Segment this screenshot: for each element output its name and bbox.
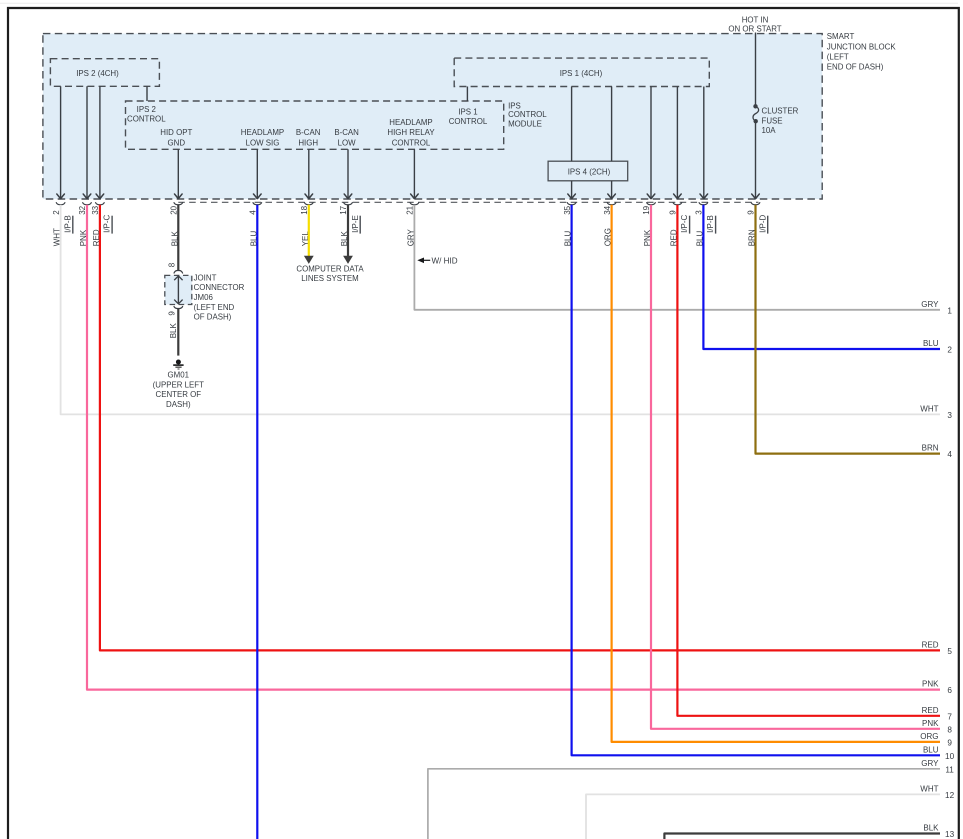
svg-text:HIGH: HIGH bbox=[298, 139, 318, 148]
svg-text:9: 9 bbox=[669, 210, 678, 215]
svg-text:3: 3 bbox=[947, 411, 952, 420]
svg-text:7: 7 bbox=[947, 712, 952, 721]
svg-text:I/P-B: I/P-B bbox=[706, 215, 715, 233]
svg-text:(LEFT: (LEFT bbox=[827, 52, 849, 61]
svg-text:WHT: WHT bbox=[920, 784, 938, 793]
svg-text:WHT: WHT bbox=[920, 404, 938, 413]
svg-text:LINES SYSTEM: LINES SYSTEM bbox=[301, 274, 358, 283]
svg-text:PNK: PNK bbox=[922, 719, 939, 728]
svg-text:9: 9 bbox=[168, 311, 177, 316]
svg-text:OF DASH): OF DASH) bbox=[194, 313, 232, 322]
svg-text:BLK: BLK bbox=[169, 323, 178, 339]
svg-text:BLU: BLU bbox=[923, 339, 939, 348]
svg-text:18: 18 bbox=[300, 205, 309, 214]
svg-text:LOW: LOW bbox=[338, 139, 357, 148]
svg-text:20: 20 bbox=[170, 205, 179, 214]
svg-text:5: 5 bbox=[947, 647, 952, 656]
svg-text:PNK: PNK bbox=[922, 680, 939, 689]
svg-text:(UPPER LEFT: (UPPER LEFT bbox=[153, 380, 204, 389]
svg-text:CLUSTER: CLUSTER bbox=[762, 107, 799, 116]
svg-text:GRY: GRY bbox=[921, 300, 939, 309]
svg-text:10: 10 bbox=[945, 752, 955, 761]
svg-text:RED: RED bbox=[922, 706, 939, 715]
svg-text:(LEFT END: (LEFT END bbox=[194, 303, 235, 312]
svg-text:BLU: BLU bbox=[923, 745, 939, 754]
svg-text:17: 17 bbox=[339, 205, 348, 214]
svg-text:CONTROL: CONTROL bbox=[127, 115, 166, 124]
svg-text:21: 21 bbox=[406, 205, 415, 214]
svg-text:HOT IN: HOT IN bbox=[742, 15, 769, 24]
svg-text:HEADLAMP: HEADLAMP bbox=[389, 118, 432, 127]
svg-text:I/P-B: I/P-B bbox=[63, 215, 72, 233]
svg-text:BRN: BRN bbox=[922, 444, 939, 453]
svg-text:MODULE: MODULE bbox=[508, 119, 542, 128]
svg-text:DASH): DASH) bbox=[166, 400, 191, 409]
svg-text:HID OPT: HID OPT bbox=[160, 128, 192, 137]
svg-text:FUSE: FUSE bbox=[762, 116, 783, 125]
svg-text:32: 32 bbox=[78, 205, 87, 214]
svg-text:10A: 10A bbox=[762, 126, 777, 135]
svg-text:IPS 2 (4CH): IPS 2 (4CH) bbox=[76, 69, 119, 78]
svg-text:4: 4 bbox=[249, 210, 258, 215]
svg-text:35: 35 bbox=[563, 205, 572, 214]
svg-text:I/P-E: I/P-E bbox=[351, 215, 360, 233]
svg-text:ORG: ORG bbox=[920, 732, 938, 741]
svg-text:GM01: GM01 bbox=[168, 371, 190, 380]
svg-text:CONNECTOR: CONNECTOR bbox=[194, 283, 245, 292]
svg-text:3: 3 bbox=[695, 210, 704, 215]
svg-text:GRY: GRY bbox=[921, 759, 939, 768]
svg-text:GND: GND bbox=[168, 139, 186, 148]
svg-text:JM06: JM06 bbox=[194, 293, 214, 302]
svg-text:I/P-C: I/P-C bbox=[680, 214, 689, 232]
svg-text:END OF DASH): END OF DASH) bbox=[827, 63, 884, 72]
svg-text:COMPUTER DATA: COMPUTER DATA bbox=[296, 264, 364, 273]
svg-text:2: 2 bbox=[947, 346, 952, 355]
svg-text:B-CAN: B-CAN bbox=[334, 128, 359, 137]
svg-text:CONTROL: CONTROL bbox=[508, 110, 547, 119]
svg-text:IPS 4 (2CH): IPS 4 (2CH) bbox=[568, 167, 611, 176]
svg-text:IPS 2: IPS 2 bbox=[137, 105, 156, 114]
svg-text:BLK: BLK bbox=[923, 824, 939, 833]
svg-text:11: 11 bbox=[945, 765, 954, 774]
svg-text:ON OR START: ON OR START bbox=[728, 25, 781, 34]
svg-text:33: 33 bbox=[91, 205, 100, 214]
svg-text:IPS 1 (4CH): IPS 1 (4CH) bbox=[560, 69, 603, 78]
svg-text:4: 4 bbox=[947, 450, 952, 459]
svg-text:34: 34 bbox=[603, 205, 612, 214]
svg-text:1: 1 bbox=[947, 306, 952, 315]
svg-text:B-CAN: B-CAN bbox=[296, 128, 321, 137]
svg-text:LOW SIG: LOW SIG bbox=[246, 139, 280, 148]
svg-text:HIGH RELAY: HIGH RELAY bbox=[387, 128, 435, 137]
svg-text:12: 12 bbox=[945, 791, 955, 800]
svg-text:I/P-C: I/P-C bbox=[103, 214, 112, 232]
svg-text:JUNCTION BLOCK: JUNCTION BLOCK bbox=[827, 42, 897, 51]
svg-text:19: 19 bbox=[642, 205, 651, 214]
svg-text:RED: RED bbox=[922, 640, 939, 649]
svg-text:9: 9 bbox=[947, 739, 952, 748]
svg-text:JOINT: JOINT bbox=[194, 273, 217, 282]
svg-text:SMART: SMART bbox=[827, 32, 855, 41]
svg-text:CONTROL: CONTROL bbox=[392, 139, 431, 148]
svg-text:13: 13 bbox=[945, 830, 955, 839]
svg-text:2: 2 bbox=[52, 210, 61, 215]
svg-text:CONTROL: CONTROL bbox=[449, 117, 488, 126]
svg-text:IPS 1: IPS 1 bbox=[458, 107, 477, 116]
svg-text:CENTER OF: CENTER OF bbox=[156, 390, 202, 399]
svg-text:IPS: IPS bbox=[508, 102, 521, 111]
svg-text:9: 9 bbox=[747, 210, 756, 215]
svg-text:HEADLAMP: HEADLAMP bbox=[241, 128, 284, 137]
svg-text:I/P-D: I/P-D bbox=[758, 214, 767, 232]
svg-text:W/ HID: W/ HID bbox=[432, 256, 458, 265]
svg-text:8: 8 bbox=[947, 725, 952, 734]
svg-text:8: 8 bbox=[168, 262, 177, 267]
svg-text:6: 6 bbox=[947, 686, 952, 695]
